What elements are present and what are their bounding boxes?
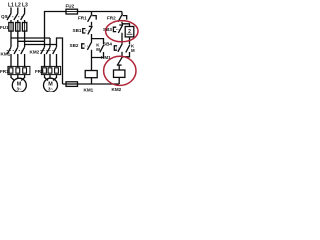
- wire control return tap: [57, 38, 63, 84]
- contact KM1 interlock (NC): [117, 57, 123, 70]
- switch QS: [6, 14, 25, 21]
- thermal relay FR2 heater elements: [41, 66, 60, 74]
- contact KM1 auxiliary (self-lock loop): [92, 39, 104, 58]
- pushbutton SB1 (NC stop): [83, 26, 93, 41]
- wire phase branch L2: [18, 40, 45, 42]
- wire control feed (L2 tap up): [45, 12, 67, 42]
- coil (mis-wired, circled error): [122, 24, 134, 44]
- svg-text:SB4: SB4: [103, 42, 112, 47]
- wire FR2 to motor M2: [45, 75, 57, 81]
- pushbutton SB2 (NO start): [82, 42, 92, 71]
- svg-text:3~: 3~: [48, 86, 53, 91]
- svg-text:SB1: SB1: [73, 28, 82, 33]
- contact FR2 (NC thermal, control): [118, 12, 127, 24]
- wire control feed into KM2 contact: [44, 41, 46, 47]
- error ellipse 1 (around mis-wired coil): [106, 21, 138, 42]
- svg-text:SB2: SB2: [70, 43, 79, 48]
- svg-text:3~: 3~: [17, 86, 22, 91]
- svg-text:KM2: KM2: [112, 87, 122, 92]
- contactor KM1 main contacts: [7, 47, 25, 54]
- contact FR1 (NC thermal, control): [88, 12, 97, 26]
- wire control top rail: [78, 11, 123, 13]
- svg-text:KM1: KM1: [1, 52, 11, 57]
- svg-text:KM1: KM1: [84, 87, 94, 92]
- svg-text:FR1: FR1: [0, 69, 9, 74]
- wire L3 drop: [24, 8, 26, 14]
- thermal relay FR1 heater elements: [8, 66, 30, 74]
- svg-text:SB3: SB3: [103, 27, 112, 32]
- svg-text:M: M: [131, 48, 135, 53]
- fuse FU2: [66, 9, 78, 14]
- svg-text:FU1: FU1: [0, 25, 9, 30]
- pushbutton SB4 (NO start): [114, 44, 122, 57]
- wire L2 drop: [17, 8, 19, 14]
- wire KM2 contacts to FR2: [45, 54, 57, 67]
- coil KM2: [114, 70, 125, 84]
- wire FU1 to KM1 contacts (three rails): [11, 31, 25, 47]
- fuse FU1 (three cartridges): [9, 23, 27, 32]
- motor M1: [12, 78, 26, 92]
- wire FR1 to motor M1: [11, 75, 25, 81]
- svg-text:KM2: KM2: [30, 50, 40, 55]
- fuse FU (bottom rail): [66, 82, 78, 87]
- contactor KM2 main contacts: [40, 47, 56, 54]
- error ellipse 2 (around KM2 coil and interlock): [104, 56, 136, 85]
- wire KM2 branch verticals: [50, 38, 57, 47]
- wire KM1 contacts to FR1: [11, 54, 25, 67]
- contact KM2 auxiliary (on parallel branch): [122, 43, 135, 56]
- coil KM1: [85, 71, 97, 85]
- wire phase branch L1: [11, 37, 50, 39]
- wire QS to FU1 (three): [11, 20, 25, 23]
- wire L1 drop: [10, 8, 12, 14]
- svg-text:QS: QS: [1, 14, 8, 19]
- pushbutton SB3 (NC): [113, 25, 123, 44]
- svg-text:FU2: FU2: [66, 4, 75, 9]
- svg-text:FR2: FR2: [107, 16, 116, 21]
- svg-text:FR1: FR1: [78, 15, 87, 20]
- svg-text:M: M: [96, 47, 100, 52]
- svg-text:FR2: FR2: [35, 69, 44, 74]
- motor M2: [44, 78, 58, 92]
- wire control bottom rail: [63, 83, 120, 85]
- wire phase branch L3: [25, 44, 57, 46]
